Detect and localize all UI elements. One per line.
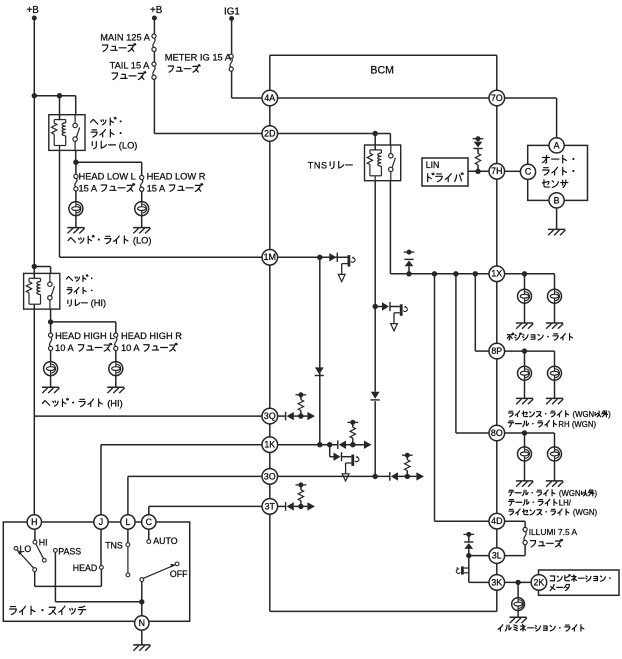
pin B (sensor) xyxy=(549,193,564,208)
supply bar (7H pull-up) xyxy=(473,136,484,141)
lamp headlight LO right xyxy=(135,202,149,216)
lamp tail light LH xyxy=(548,447,562,461)
wire position lamp L to ground xyxy=(524,303,526,323)
ground (headlight LO left) xyxy=(67,228,84,234)
svg-text:LH/: LH/ xyxy=(559,498,572,507)
wire J to light switch xyxy=(100,445,102,515)
svg-text:+B: +B xyxy=(150,5,163,16)
ground (headlight LO right) xyxy=(133,228,150,234)
wire to HEAD HIGH L fuse xyxy=(50,322,52,333)
ground (headlight HI left) xyxy=(42,387,59,393)
wire to illumination lamp xyxy=(517,582,519,598)
auto light sensor box xyxy=(528,145,588,200)
resistor R-3O xyxy=(406,455,408,459)
svg-text:4D: 4D xyxy=(491,516,502,526)
wire OFF pivot to N xyxy=(141,582,143,616)
lamp position light R xyxy=(548,289,562,303)
pin 3T xyxy=(262,499,278,515)
wire tap to 4D xyxy=(434,274,436,521)
wire to position lamp R xyxy=(554,274,556,289)
pin A (sensor) xyxy=(549,138,564,153)
blade TNS hanging xyxy=(127,547,129,574)
wire TNS coil low side xyxy=(374,181,376,392)
wire 3O stub xyxy=(278,475,390,477)
arrow output 1K xyxy=(364,441,372,449)
fuse HEAD HIGH L xyxy=(49,333,53,351)
svg-text:1X: 1X xyxy=(491,269,502,279)
node junction 3O/TNS coil xyxy=(373,474,378,479)
wire IG1 to METER IG fuse xyxy=(231,19,233,55)
wire light switch J to BCM 1K xyxy=(101,444,262,446)
wire 3Q stub xyxy=(278,415,286,417)
arrow output 3T xyxy=(307,502,315,510)
wire H to HI contact xyxy=(34,529,36,540)
ground (8P lamp R) xyxy=(546,398,563,404)
ground (position light R) xyxy=(546,323,563,329)
svg-text:15 A: 15 A xyxy=(147,184,166,194)
svg-text:8O: 8O xyxy=(491,428,503,438)
wire TNS switch feed xyxy=(389,134,391,146)
pin 4A xyxy=(262,90,278,106)
wire BCM 2D to TNS relay xyxy=(278,133,391,135)
pin 8P xyxy=(489,343,505,359)
arrow input 3O xyxy=(390,472,398,481)
supply bar (3Q pull-up) xyxy=(296,392,307,397)
node junction 1M branch xyxy=(317,255,322,260)
pin 1X xyxy=(489,266,505,282)
lamp headlight LO left xyxy=(69,202,83,216)
wire headlight LO left to ground xyxy=(75,216,77,228)
svg-text:(WGN): (WGN) xyxy=(573,508,598,517)
node junction 3L xyxy=(466,553,471,558)
pin 8O xyxy=(489,425,505,441)
diode D-3L (clamp) xyxy=(468,534,470,541)
arrow input 3Q xyxy=(286,412,294,421)
pin L (light switch) xyxy=(121,515,135,529)
svg-text:8P: 8P xyxy=(491,346,502,356)
ground (illumination light) xyxy=(510,617,527,623)
node junction 1K/Q3 xyxy=(327,442,332,447)
node junction 1K pull-up xyxy=(350,442,355,447)
svg-text:C: C xyxy=(146,517,153,527)
wire 8P lamp L to ground xyxy=(524,380,526,398)
node junction 8O lamp L xyxy=(522,430,527,435)
combination meter box xyxy=(539,570,620,595)
light switch box xyxy=(3,522,189,621)
wire LO pivot to HEAD contact xyxy=(34,572,36,587)
svg-text:PASS: PASS xyxy=(58,546,81,556)
diode D-1K (series) xyxy=(315,367,324,375)
svg-text:3O: 3O xyxy=(264,471,276,481)
supply bar (3T pull-up) xyxy=(296,482,307,487)
ground (headlight HI right) xyxy=(107,387,124,393)
svg-text:C: C xyxy=(525,167,532,177)
wire headlight HI left to ground xyxy=(50,376,52,388)
transistor Q4 (illumination driver) xyxy=(461,566,464,574)
svg-text:L: L xyxy=(125,517,130,527)
wire J to HEAD contact xyxy=(100,529,102,565)
node junction 3T xyxy=(298,504,303,509)
node junction 3O pull-up xyxy=(405,474,410,479)
wire Q2 feed xyxy=(375,306,382,308)
diode D-TNS (coil line) xyxy=(371,392,380,400)
LIN driver box xyxy=(422,158,468,186)
node junction LIN/7H xyxy=(475,169,480,174)
supply bar (3L clamp) xyxy=(463,532,474,537)
contact PASS xyxy=(54,549,58,553)
wire +B to LO relay xyxy=(34,95,75,97)
fuse HEAD HIGH R xyxy=(114,333,118,351)
relay headlight LO xyxy=(49,115,85,151)
diode D-Q3 xyxy=(334,452,342,461)
svg-text:(LO): (LO) xyxy=(133,236,152,246)
svg-text:N: N xyxy=(139,618,145,628)
pin 2D xyxy=(262,126,278,142)
svg-text:15 A: 15 A xyxy=(79,184,98,194)
wire C to light switch xyxy=(148,506,150,514)
relay headlight HI xyxy=(24,273,60,309)
wire LO switch feed xyxy=(75,96,77,115)
pin C (light switch) xyxy=(142,515,156,529)
wire 4D to ILLUMI fuse xyxy=(505,520,525,522)
label headlight LO xyxy=(68,235,151,245)
svg-text:7O: 7O xyxy=(491,93,503,103)
wire sensor B to ground xyxy=(556,208,558,229)
ground (light switch N) xyxy=(133,645,150,651)
pin 3O xyxy=(262,469,278,485)
svg-text:TNS: TNS xyxy=(105,540,123,550)
wire +B to MAIN fuse xyxy=(153,18,155,34)
lamp headlight HI left xyxy=(44,362,58,376)
pin N (light switch) xyxy=(135,616,149,630)
pin J (light switch) xyxy=(94,515,108,529)
svg-text:2D: 2D xyxy=(264,128,275,138)
wire ILLUMI fuse to 3L xyxy=(524,545,526,556)
wire HEAD LOW R fuse to lamp xyxy=(141,191,143,201)
fuse ILLUMI 7.5 A xyxy=(523,527,527,544)
svg-text:HEAD: HEAD xyxy=(73,563,97,573)
node junction HI relay feed xyxy=(32,264,37,269)
transistor Q2 (TNS driver) xyxy=(391,304,408,331)
wire to HEAD LOW R fuse xyxy=(76,161,142,163)
diode D-1X (clamp to supply) xyxy=(404,259,413,266)
label headlight relay LO xyxy=(91,117,122,125)
pin 3L xyxy=(489,548,505,564)
lamp position light L xyxy=(518,289,532,303)
svg-text:3Q: 3Q xyxy=(264,411,276,421)
wire 1M branch down xyxy=(319,257,321,444)
blade H HI xyxy=(36,544,44,559)
wire 8P lamp R to ground xyxy=(554,380,556,398)
wire headlight HI right to ground xyxy=(115,376,117,388)
contact AUTO xyxy=(147,540,151,544)
wire 1X to position lights xyxy=(505,273,555,275)
wire L to TNS contact xyxy=(127,529,129,543)
wire +B vertical bus (through HI relay coil to light switch H) xyxy=(33,18,35,278)
svg-text:3T: 3T xyxy=(265,501,276,511)
node junction TNS coil xyxy=(373,131,378,136)
resistor R-3T xyxy=(300,485,302,490)
svg-text:2K: 2K xyxy=(534,577,545,587)
svg-text:ILLUMI 7.5 A: ILLUMI 7.5 A xyxy=(529,527,578,537)
svg-text:(WGN: (WGN xyxy=(559,489,581,498)
pin 3Q xyxy=(262,408,278,424)
label light switch xyxy=(10,606,86,614)
wire TAIL fuse to BCM 2D xyxy=(153,79,155,133)
svg-text:(WGN: (WGN xyxy=(573,410,595,419)
contact OFF xyxy=(175,562,179,566)
svg-text:(LO): (LO) xyxy=(119,141,138,151)
wire L to light switch xyxy=(127,476,129,514)
contact HI xyxy=(33,540,37,544)
wire to HEAD HIGH R fuse xyxy=(51,321,116,323)
wire METER fuse to BCM 4A xyxy=(231,71,233,98)
diode D-Q1 xyxy=(329,253,337,262)
wire 3K to 2K xyxy=(505,581,531,583)
node junction Q2 branch xyxy=(373,304,378,309)
ground (sensor) xyxy=(548,229,565,235)
svg-text:LIN: LIN xyxy=(426,160,440,170)
contact TNS blade end xyxy=(126,573,130,577)
fuse HEAD LOW L xyxy=(74,174,78,191)
fuse HEAD LOW R xyxy=(140,175,144,191)
wire TNS switch to 1X row xyxy=(389,181,391,274)
svg-text:10 A: 10 A xyxy=(121,343,140,353)
wire C to AUTO contact xyxy=(148,529,150,539)
lamp illumination light xyxy=(512,598,525,611)
arrow input 3T xyxy=(286,502,294,511)
wire illumination lamp to ground xyxy=(517,611,519,618)
contact LO pivot xyxy=(33,568,37,572)
node junction N xyxy=(139,599,144,604)
pin C (sensor) xyxy=(520,164,535,179)
wire LIN driver to 7H xyxy=(468,170,489,172)
contact OFF pivot xyxy=(140,578,144,582)
fuse METER IG 15 A xyxy=(229,54,233,71)
pin 1M xyxy=(262,249,278,265)
transistor Q3 (TNS output driver) xyxy=(342,455,359,482)
wire 1K stub xyxy=(278,444,338,446)
wire to 8P lamp R xyxy=(554,351,556,366)
wire to position lamp L xyxy=(524,274,526,289)
node junction 3Q xyxy=(298,413,303,418)
arrow output 3O xyxy=(416,472,424,480)
supply bar (1X clamp) xyxy=(404,250,415,255)
svg-text:METER IG 15 A: METER IG 15 A xyxy=(165,53,232,63)
resistor R-1K xyxy=(352,422,354,427)
svg-text:HEAD HIGH L: HEAD HIGH L xyxy=(55,331,114,341)
node junction LO coil xyxy=(57,93,62,98)
svg-text:): ) xyxy=(595,489,598,498)
wire 1M to driver xyxy=(278,256,348,258)
label auto light sensor xyxy=(542,155,574,163)
wire HI relay coil to BCM 3Q xyxy=(34,415,262,417)
pin 7O xyxy=(489,90,505,106)
svg-text:4A: 4A xyxy=(264,93,275,103)
label illumination lights xyxy=(498,624,584,631)
wire PASS to N node xyxy=(54,552,56,602)
wire 7H to sensor C xyxy=(505,170,521,172)
label position lights xyxy=(507,333,572,340)
wire 3T stub xyxy=(278,505,286,507)
node junction illumination xyxy=(515,580,520,585)
resistor R-3Q xyxy=(300,395,302,400)
svg-text:MAIN 125 A: MAIN 125 A xyxy=(100,32,150,42)
svg-text:HI: HI xyxy=(39,538,48,548)
BCM box outline xyxy=(270,54,497,56)
wire to HEAD LOW L fuse xyxy=(75,162,77,174)
wire headlight LO right to ground xyxy=(141,216,143,228)
svg-text:OFF: OFF xyxy=(170,569,188,579)
node junction tap 8O xyxy=(453,271,458,276)
pin 3K xyxy=(489,575,505,591)
svg-text:+B: +B xyxy=(27,5,40,16)
wire 3L to 3K xyxy=(468,558,470,582)
wire 8P to lamps xyxy=(505,350,555,352)
arrow output 3Q xyxy=(307,412,315,420)
ground (position light L) xyxy=(516,323,533,329)
ground (8O lamp L) xyxy=(516,481,533,487)
ground (8O lamp R) xyxy=(546,481,563,487)
svg-text:(HI): (HI) xyxy=(107,399,123,409)
diode D-7H (to supply) xyxy=(477,139,479,142)
node junction LO fuse branch xyxy=(73,160,78,165)
node junction HI fuse branch xyxy=(48,319,53,324)
transistor Q1 (LO driver) xyxy=(338,255,355,282)
node junction position lamp L xyxy=(522,271,527,276)
svg-text:(HI): (HI) xyxy=(91,298,107,308)
wire HEAD HIGH R fuse to lamp xyxy=(115,351,117,362)
label headlight relay HI xyxy=(66,275,92,282)
svg-text:IG1: IG1 xyxy=(224,7,240,18)
node junction 8P lamp L xyxy=(522,348,527,353)
lamp tail light RH xyxy=(548,366,562,380)
wire 8O to lamps xyxy=(505,432,555,434)
contact TNS xyxy=(126,543,130,547)
lamp license light L xyxy=(518,366,532,380)
pin 7H xyxy=(489,164,505,180)
fuse MAIN 125 A xyxy=(152,34,156,52)
svg-text:H: H xyxy=(31,517,37,527)
label headlight HI xyxy=(42,398,122,408)
wire BCM 4A to 7O xyxy=(278,97,489,99)
wire HEAD HIGH L fuse to lamp xyxy=(50,351,52,362)
wire LO relay coil to BCM 1M xyxy=(59,150,61,257)
wire 8O lamp R to ground xyxy=(554,461,556,481)
label license/tail RH xyxy=(508,410,611,419)
node junction LO relay feed xyxy=(32,93,37,98)
svg-text:1K: 1K xyxy=(264,440,275,450)
diode D-Q2 xyxy=(382,302,390,311)
wire HI switch to fuses xyxy=(50,309,52,322)
blade LO with arrow xyxy=(17,550,34,568)
wire +B to HI relay switch xyxy=(34,266,50,268)
node junction tap 8P xyxy=(473,271,478,276)
label combination meter xyxy=(550,575,610,582)
node junction tap 4D xyxy=(432,271,437,276)
wire LO coil feed xyxy=(59,96,61,120)
fuse TAIL 15 A xyxy=(152,62,156,79)
blade OFF with arrow xyxy=(143,565,175,579)
wire 8O lamp L to ground xyxy=(524,461,526,481)
wire TNS coil feed xyxy=(374,134,376,150)
wire N to ground xyxy=(141,630,143,645)
svg-text:RH (WGN): RH (WGN) xyxy=(558,420,596,429)
wire 3L to clamp node xyxy=(469,555,489,557)
wire position lamp R to ground xyxy=(554,303,556,323)
wire MAIN fuse to TAIL fuse xyxy=(153,52,155,63)
svg-text:): ) xyxy=(608,410,611,419)
wire to 8O lamp L xyxy=(524,433,526,447)
pin 1K xyxy=(262,437,278,453)
pin H (light switch) xyxy=(27,515,41,529)
svg-text:B: B xyxy=(554,195,560,205)
svg-text:TAIL 15 A: TAIL 15 A xyxy=(110,61,151,71)
svg-text:3K: 3K xyxy=(491,577,502,587)
wire light switch C to BCM 3T xyxy=(149,505,262,507)
pin 4D xyxy=(489,513,505,529)
svg-text:A: A xyxy=(554,140,560,150)
node junction 1K/1M-diode xyxy=(317,442,322,447)
lamp headlight HI right xyxy=(109,362,123,376)
wire tap to 8P xyxy=(474,274,476,351)
label tail/license lights xyxy=(509,489,598,498)
contact LO xyxy=(14,546,18,550)
svg-text:7H: 7H xyxy=(491,166,502,176)
supply bar (1K pull-up) xyxy=(347,420,358,425)
relay TNS xyxy=(365,145,401,181)
wire to 8O lamp R xyxy=(554,433,556,447)
ground (8P lamp L) xyxy=(516,398,533,404)
svg-text:HEAD HIGH R: HEAD HIGH R xyxy=(121,331,182,341)
wire light switch L to BCM 3O xyxy=(128,475,262,477)
node junction clamp/1X xyxy=(406,271,411,276)
contact HEAD xyxy=(100,566,104,570)
pin 2K xyxy=(531,575,547,591)
svg-text:3L: 3L xyxy=(492,551,502,561)
wire 7O to auto light sensor A xyxy=(505,97,557,99)
wire HEAD LOW L fuse to lamp xyxy=(75,191,77,202)
lamp tail light L xyxy=(518,447,532,461)
svg-text:J: J xyxy=(99,517,103,527)
wire 1K to Q3 xyxy=(329,445,331,457)
wire tap to 8O xyxy=(455,274,457,433)
wire LO switch to fuses xyxy=(75,150,77,162)
contact HI blade end xyxy=(42,558,46,562)
svg-text:TNS: TNS xyxy=(308,161,328,171)
svg-text:AUTO: AUTO xyxy=(153,536,177,546)
svg-text:10 A: 10 A xyxy=(55,343,74,353)
svg-text:BCM: BCM xyxy=(370,64,394,76)
svg-text:HEAD LOW L: HEAD LOW L xyxy=(79,172,136,182)
supply bar (3O pull-up) xyxy=(402,453,413,458)
svg-text:HEAD LOW R: HEAD LOW R xyxy=(147,172,206,182)
svg-text:1M: 1M xyxy=(264,252,276,262)
wire to 8P lamp L xyxy=(524,351,526,366)
arrow input 1K xyxy=(338,440,346,449)
resistor R-7H (pull-up) xyxy=(477,149,479,154)
